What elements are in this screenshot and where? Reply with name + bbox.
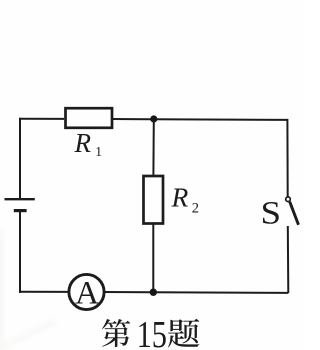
wire bottom-left segment [19,291,69,293]
wire left lower [19,211,21,293]
wire top-right segment [113,118,287,121]
switch S blade [290,202,299,225]
svg-text:R: R [74,128,92,158]
battery cell: short plate [14,209,27,212]
svg-text:R: R [171,182,189,213]
node junction top [150,115,157,122]
svg-text:1: 1 [95,144,102,159]
wire right lower [287,226,290,293]
caption char 第 [102,319,130,347]
wire left upper [19,118,21,199]
caption char 题 [168,319,199,348]
wire bottom-right segment [104,291,288,294]
node junction bottom [150,289,157,296]
battery cell: long plate [5,198,35,200]
wire top-left segment [20,118,64,120]
svg-text:A: A [75,275,99,311]
switch S pivot circle [286,197,291,202]
resistor R2 [144,176,164,224]
wire middle branch upper [152,119,154,175]
wire middle branch lower [152,224,154,293]
svg-text:2: 2 [192,201,199,217]
ammeter A [69,274,104,309]
svg-text:S: S [261,194,282,231]
wire right upper [286,119,288,197]
svg-text:15: 15 [137,314,167,350]
resistor R1 [66,108,113,128]
